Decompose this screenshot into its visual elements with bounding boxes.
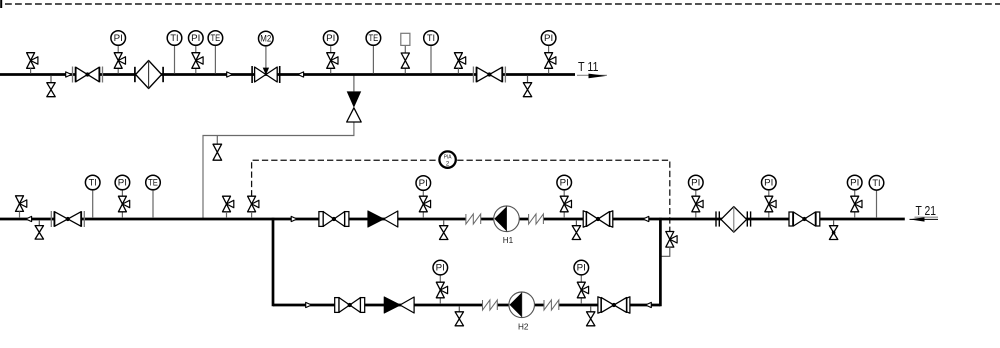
svg-text:H1: H1 (503, 236, 514, 245)
svg-text:M2: M2 (260, 34, 271, 44)
svg-text:PI: PI (118, 178, 127, 188)
svg-text:TE: TE (369, 33, 379, 43)
svg-text:PI: PI (191, 33, 200, 43)
svg-text:PI: PI (691, 178, 700, 188)
svg-text:PI: PI (436, 263, 445, 273)
svg-text:PIA: PIA (444, 154, 452, 160)
svg-text:PI: PI (419, 178, 428, 188)
svg-text:TI: TI (872, 178, 880, 188)
svg-text:TE: TE (148, 178, 158, 188)
svg-text:PI: PI (560, 178, 569, 188)
svg-text:PI: PI (577, 263, 586, 273)
svg-text:PI: PI (850, 178, 859, 188)
svg-text:PI: PI (544, 33, 553, 43)
svg-text:T 21: T 21 (916, 204, 937, 218)
svg-text:TI: TI (89, 178, 97, 188)
svg-text:H2: H2 (518, 323, 529, 332)
svg-text:PI: PI (764, 178, 773, 188)
svg-text:TE: TE (211, 33, 221, 43)
svg-text:TI: TI (427, 33, 435, 43)
svg-text:TI: TI (170, 33, 178, 43)
svg-text:PI: PI (326, 33, 335, 43)
svg-text:PI: PI (114, 33, 123, 43)
svg-text:T 11: T 11 (578, 60, 599, 74)
